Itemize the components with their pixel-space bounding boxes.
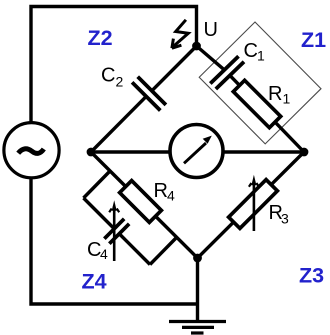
wire detector left — [91, 150, 170, 153]
wire arm Z1 lower segment — [230, 75, 304, 152]
node U top vertex — [192, 42, 201, 51]
svg-text:4: 4 — [167, 188, 175, 204]
svg-text:1: 1 — [283, 91, 291, 107]
resistor R4 — [120, 181, 162, 223]
capacitor C4 plates — [104, 219, 129, 244]
wire Z4 branch left stub — [84, 171, 111, 198]
wire detector right — [223, 150, 304, 153]
wire Z4 branch lower-left segment — [84, 198, 115, 229]
svg-text:R: R — [154, 180, 168, 202]
svg-text:Z1: Z1 — [301, 28, 326, 52]
wire arm Z4 main — [91, 152, 198, 258]
svg-text:3: 3 — [281, 211, 289, 227]
svg-text:U: U — [204, 19, 218, 41]
AC source G1 — [4, 123, 59, 178]
resistor R1 — [233, 80, 280, 127]
svg-text:Z2: Z2 — [88, 26, 113, 50]
svg-text:C: C — [244, 40, 258, 62]
detector null meter — [170, 125, 223, 178]
wire top loop from source to node U — [31, 7, 197, 123]
svg-text:4: 4 — [100, 246, 108, 262]
ground — [169, 322, 226, 334]
svg-text:1: 1 — [257, 48, 265, 64]
wire bottom vertex to ground — [196, 258, 199, 321]
flash arrow U — [172, 20, 189, 48]
svg-text:2: 2 — [116, 74, 124, 90]
capacitor C1 — [210, 56, 244, 89]
wire arm Z2 upper segment — [152, 46, 197, 91]
wire arm Z1 upper segment — [197, 46, 225, 70]
wire arm Z3 — [198, 152, 305, 258]
svg-text:C: C — [101, 65, 115, 87]
Z1 enclosure box — [199, 22, 321, 144]
svg-text:Z4: Z4 — [82, 270, 107, 294]
node left vertex — [87, 148, 96, 157]
wire arm Z2 lower segment — [91, 96, 146, 152]
resistor R3 — [229, 180, 278, 229]
node right vertex — [300, 148, 309, 157]
resistor R3 wiper arrow — [249, 175, 259, 231]
svg-text:Z3: Z3 — [299, 264, 324, 288]
capacitor C4 trimmer arrow — [109, 200, 119, 261]
node bottom vertex — [193, 254, 202, 263]
svg-text:R: R — [268, 83, 282, 105]
wire source bottom to ground node — [31, 179, 198, 305]
capacitor C2 — [132, 77, 166, 111]
wire Z4 branch lower-right segment — [119, 234, 150, 265]
wire Z4 branch right stub — [150, 238, 177, 265]
